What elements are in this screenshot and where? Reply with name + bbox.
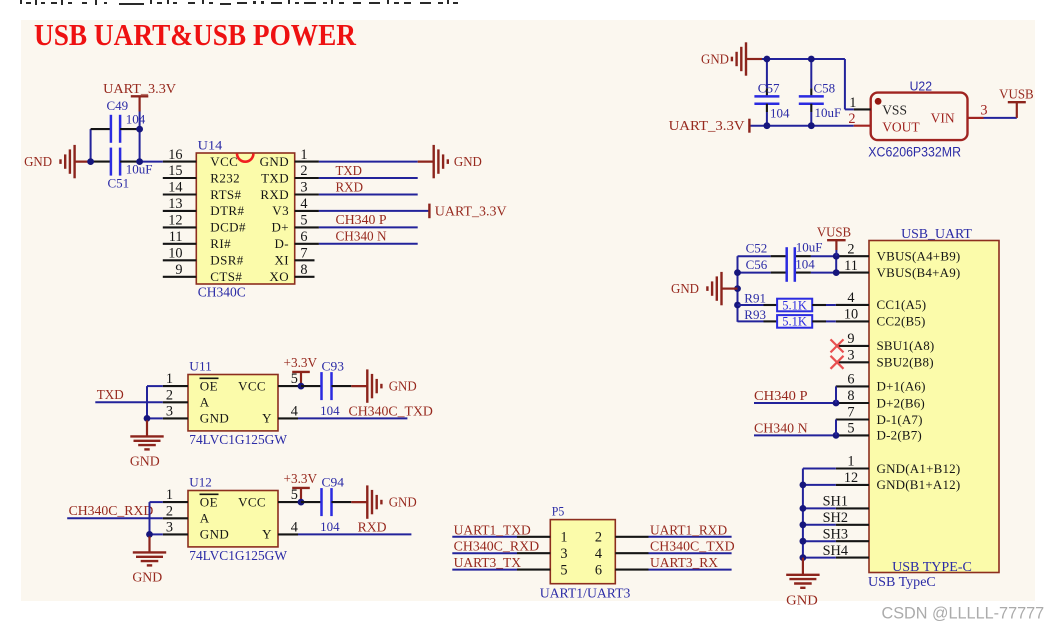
svg-text:VBUS(A4+B9): VBUS(A4+B9) [877,249,961,264]
svg-text:XI: XI [274,253,289,268]
svg-text:D+: D+ [271,220,289,235]
svg-text:7: 7 [300,246,307,262]
svg-text:C57: C57 [758,81,780,96]
svg-text:GND: GND [260,154,289,169]
svg-text:11: 11 [844,258,858,274]
svg-text:10: 10 [844,307,858,323]
svg-text:C51: C51 [108,176,130,191]
svg-text:CH340C_TXD: CH340C_TXD [349,403,434,418]
svg-text:R91: R91 [744,291,766,306]
svg-text:2: 2 [166,387,173,403]
svg-text:CH340 P: CH340 P [754,388,808,403]
svg-text:2: 2 [300,163,307,179]
svg-text:10: 10 [168,246,182,262]
svg-text:UART_3.3V: UART_3.3V [669,118,745,133]
svg-text:C93: C93 [322,359,345,374]
svg-text:XO: XO [269,269,289,284]
svg-text:CH340C_RXD: CH340C_RXD [454,539,540,554]
svg-text:+3.3V: +3.3V [284,471,318,486]
svg-text:3: 3 [847,348,854,364]
svg-text:OE: OE [200,494,218,509]
svg-text:GND: GND [200,411,229,426]
svg-text:D-2(B7): D-2(B7) [877,428,922,443]
svg-text:SH1: SH1 [823,494,848,510]
svg-text:D+2(B6): D+2(B6) [877,395,925,410]
svg-text:5.1K: 5.1K [782,315,807,329]
svg-text:1: 1 [560,530,567,546]
svg-text:3: 3 [560,546,567,562]
svg-text:USB TypeC: USB TypeC [868,574,936,589]
svg-text:C58: C58 [814,81,836,96]
svg-text:1: 1 [849,95,856,111]
svg-text:RI#: RI# [210,236,231,251]
svg-text:USB TYPE-C: USB TYPE-C [892,559,972,574]
svg-text:UART1_RXD: UART1_RXD [650,522,727,537]
svg-text:15: 15 [168,163,182,179]
svg-text:4: 4 [300,196,307,212]
svg-text:UART3_TX: UART3_TX [454,555,522,570]
svg-text:UART1_TXD: UART1_TXD [454,522,531,537]
svg-text:R232: R232 [210,170,240,185]
svg-text:1: 1 [166,371,173,387]
svg-text:+3.3V: +3.3V [284,355,318,370]
svg-text:104: 104 [126,112,146,127]
svg-text:2: 2 [595,530,602,546]
svg-text:3: 3 [980,102,987,118]
svg-text:6: 6 [595,562,602,578]
svg-text:VSS: VSS [882,103,907,118]
svg-text:12: 12 [844,470,858,486]
svg-text:1: 1 [847,454,854,470]
svg-text:RXD: RXD [358,519,387,534]
svg-text:5: 5 [300,213,307,229]
svg-text:U11: U11 [189,359,212,374]
svg-text:GND: GND [786,594,818,609]
svg-text:4: 4 [847,290,854,306]
svg-text:14: 14 [168,180,182,196]
svg-text:TXD: TXD [261,170,289,185]
svg-text:10uF: 10uF [126,162,153,177]
svg-text:VCC: VCC [238,494,266,509]
svg-text:104: 104 [795,256,815,271]
svg-text:8: 8 [847,388,854,404]
svg-text:7: 7 [847,405,854,421]
svg-text:U22: U22 [910,79,932,94]
svg-text:CH340 P: CH340 P [336,212,387,227]
svg-text:GND: GND [454,154,482,169]
svg-text:XC6206P332MR: XC6206P332MR [868,145,961,160]
svg-text:4: 4 [595,546,602,562]
svg-text:VBUS(B4+A9): VBUS(B4+A9) [877,265,961,280]
svg-text:VIN: VIN [931,110,955,125]
svg-text:Y: Y [262,411,272,426]
svg-text:74LVC1G125GW: 74LVC1G125GW [189,549,287,564]
svg-text:2: 2 [848,111,855,127]
svg-text:74LVC1G125GW: 74LVC1G125GW [189,433,287,448]
svg-text:A: A [200,511,210,526]
svg-text:3: 3 [166,403,173,419]
svg-text:2: 2 [847,241,854,257]
svg-text:V3: V3 [272,203,289,218]
svg-text:TXD: TXD [97,387,124,402]
svg-text:CTS#: CTS# [210,269,242,284]
svg-text:DCD#: DCD# [210,220,246,235]
svg-text:6: 6 [300,229,307,245]
svg-text:SH2: SH2 [823,510,848,526]
svg-text:C94: C94 [322,475,345,490]
svg-text:3: 3 [300,180,307,196]
svg-text:12: 12 [168,213,182,229]
svg-text:D-: D- [274,236,289,251]
svg-text:GND: GND [200,527,229,542]
svg-text:5: 5 [291,371,298,387]
svg-text:CH340C_RXD: CH340C_RXD [69,503,154,518]
svg-text:RXD: RXD [260,187,289,202]
svg-text:GND: GND [132,571,162,586]
svg-text:SH4: SH4 [823,543,848,559]
svg-text:USB_UART: USB_UART [901,227,972,242]
svg-text:9: 9 [847,331,854,347]
svg-text:UART1/UART3: UART1/UART3 [540,587,631,602]
svg-text:C52: C52 [746,241,768,256]
svg-text:D+1(A6): D+1(A6) [877,379,926,394]
svg-text:Y: Y [262,527,272,542]
svg-text:4: 4 [291,519,298,535]
svg-text:104: 104 [320,519,340,534]
svg-text:6: 6 [847,372,854,388]
svg-text:GND: GND [389,379,417,394]
svg-text:C56: C56 [746,257,768,272]
svg-text:CH340C: CH340C [198,286,246,301]
svg-text:VCC: VCC [210,154,238,169]
svg-text:OE: OE [200,378,218,393]
svg-text:VUSB: VUSB [817,225,851,240]
svg-text:CH340 N: CH340 N [336,229,387,244]
svg-text:USB UART&USB POWER: USB UART&USB POWER [34,17,357,52]
svg-text:5: 5 [560,562,567,578]
svg-text:RTS#: RTS# [210,187,241,202]
svg-text:GND: GND [389,495,417,510]
svg-text:104: 104 [320,403,340,418]
svg-text:5: 5 [291,487,298,503]
svg-text:16: 16 [168,147,182,163]
svg-text:DSR#: DSR# [210,253,243,268]
svg-text:VCC: VCC [238,378,266,393]
svg-text:8: 8 [300,262,307,278]
svg-text:2: 2 [166,503,173,519]
svg-text:SBU2(B8): SBU2(B8) [877,355,934,370]
svg-text:1: 1 [300,147,307,163]
svg-text:GND: GND [130,455,160,470]
svg-text:11: 11 [169,229,183,245]
svg-text:104: 104 [770,106,790,121]
svg-text:VOUT: VOUT [882,119,920,134]
svg-text:U14: U14 [198,138,223,153]
svg-text:SH3: SH3 [823,526,848,542]
svg-text:5.1K: 5.1K [782,298,807,312]
svg-text:R93: R93 [744,307,766,322]
svg-text:10uF: 10uF [796,240,823,255]
svg-text:CC1(A5): CC1(A5) [877,297,927,312]
svg-text:GND(B1+A12): GND(B1+A12) [877,477,961,492]
svg-text:VUSB: VUSB [999,87,1034,102]
svg-text:UART_3.3V: UART_3.3V [103,81,176,96]
svg-text:TXD: TXD [336,163,363,178]
svg-text:4: 4 [291,403,298,419]
svg-text:9: 9 [175,262,182,278]
svg-text:CH340C_TXD: CH340C_TXD [650,539,735,554]
svg-text:DTR#: DTR# [210,203,244,218]
svg-text:10uF: 10uF [815,105,842,120]
svg-text:SBU1(A8): SBU1(A8) [877,338,935,353]
svg-text:GND(A1+B12): GND(A1+B12) [877,461,961,476]
svg-text:1: 1 [166,487,173,503]
svg-text:UART3_RX: UART3_RX [650,555,718,570]
svg-text:CSDN @LLLLL-77777: CSDN @LLLLL-77777 [882,605,1045,623]
svg-text:GND: GND [671,281,699,296]
svg-text:CC2(B5): CC2(B5) [877,314,926,329]
svg-text:CH340 N: CH340 N [754,420,808,435]
svg-text:A: A [200,395,210,410]
svg-text:D-1(A7): D-1(A7) [877,412,923,427]
svg-text:RXD: RXD [336,179,364,194]
svg-text:3: 3 [166,519,173,535]
svg-text:GND: GND [701,52,729,67]
svg-text:UART_3.3V: UART_3.3V [435,204,507,219]
svg-text:13: 13 [168,196,182,212]
svg-text:5: 5 [847,421,854,437]
svg-text:GND: GND [24,154,52,169]
svg-text:U12: U12 [189,475,212,490]
svg-text:P5: P5 [552,504,565,519]
